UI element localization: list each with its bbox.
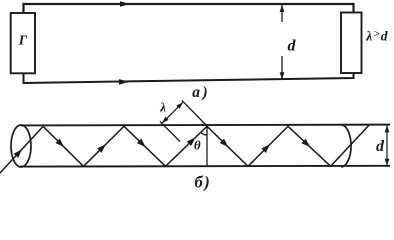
arrow on bottom wire	[119, 79, 129, 85]
svg-text:d: d	[288, 38, 297, 55]
wavefront tick	[160, 122, 180, 142]
wire top (fig a)	[24, 4, 354, 13]
waveguide top wall (fig b)	[21, 124, 390, 127]
ray arrow 5	[220, 139, 229, 148]
svg-text:d: d	[376, 138, 385, 155]
zigzag ray path	[43, 125, 369, 167]
wire bottom (fig a)	[24, 73, 354, 83]
waveguide right end rim arc	[341, 125, 351, 167]
ray arrow 1	[56, 139, 65, 148]
dimension d (fig a) upper segment	[281, 5, 283, 22]
ray arrow 2	[97, 144, 106, 153]
svg-text:Г: Г	[18, 33, 28, 48]
arrow on top wire	[120, 1, 130, 7]
dimension d (fig b)	[386, 125, 388, 165]
dimension d (fig a) lower segment	[281, 56, 283, 79]
svg-text:а): а)	[192, 84, 207, 101]
svg-text:θ: θ	[194, 137, 201, 152]
load box (fig a right)	[341, 13, 362, 74]
ray extension above wall	[182, 100, 207, 126]
theta arc	[201, 132, 207, 135]
ray arrow 4	[187, 138, 196, 147]
waveguide left end ellipse	[11, 125, 31, 167]
ray arrow 3	[137, 139, 146, 148]
ray arrow 6	[261, 144, 270, 153]
waveguide bottom wall (fig b)	[20, 165, 390, 168]
svg-text:б): б)	[195, 172, 210, 191]
svg-text:λ: λ	[159, 99, 166, 114]
lambda dimension arrow	[162, 102, 183, 123]
vertical chord at theta vertex	[206, 126, 208, 166]
entry ray	[0, 127, 43, 174]
generator box Г (fig a left)	[11, 13, 35, 73]
ray arrow 7	[302, 139, 311, 147]
